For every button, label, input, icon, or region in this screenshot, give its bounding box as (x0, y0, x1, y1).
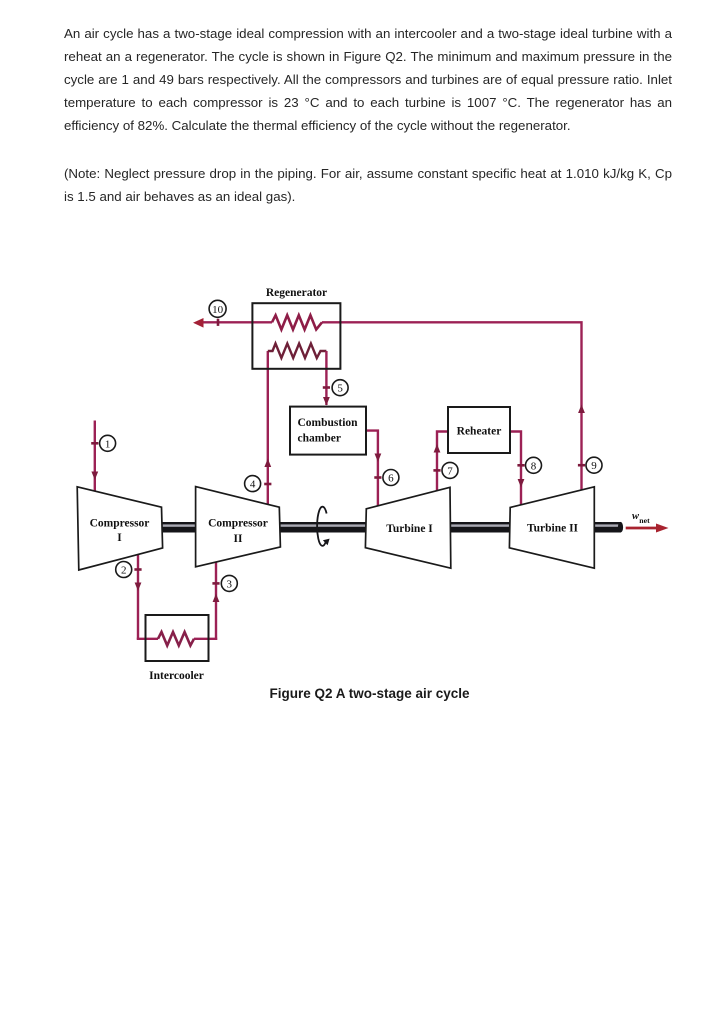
pipe 5 : regenerator to combustion chamber (325, 351, 327, 405)
svg-text:7: 7 (447, 465, 453, 477)
pipe 6 : combustion chamber to turbine I (366, 431, 378, 506)
node 1 (100, 435, 116, 451)
tick node 10 (217, 319, 220, 326)
arrow on pipe 1 (91, 472, 98, 481)
pipe 3 : intercooler to compressor II (215, 562, 217, 640)
arrow on pipe 7 (434, 444, 441, 453)
svg-text:10: 10 (212, 304, 224, 316)
problem statement paragraph (64, 22, 672, 137)
turbine II body (509, 487, 594, 568)
svg-text:3: 3 (227, 578, 233, 590)
reheater box (448, 407, 510, 453)
svg-text:Combustion: Combustion (298, 417, 359, 429)
arrow on pipe 3 (213, 594, 220, 603)
svg-text:1: 1 (105, 438, 111, 450)
arrow on pipe 8 (518, 479, 525, 488)
node 10 (209, 300, 226, 317)
exit pipe 10 (201, 321, 272, 323)
svg-text:Intercooler: Intercooler (149, 670, 204, 682)
regenerator box (252, 303, 340, 369)
node 8 (526, 457, 542, 473)
node 5 (332, 380, 348, 396)
node 6 (383, 470, 399, 486)
arrow on pipe 6 (375, 454, 382, 463)
intercooler box (146, 615, 209, 661)
svg-text:Compressor: Compressor (90, 518, 150, 530)
figure caption (270, 686, 470, 701)
svg-text:Regenerator: Regenerator (266, 287, 327, 299)
node 7 (442, 462, 458, 478)
compressor I body (77, 487, 162, 570)
arrow on pipe 4 (264, 459, 271, 468)
pipe 7 : turbine I to reheater (437, 432, 449, 491)
tick node 6 (374, 476, 381, 479)
tick node 1 (91, 442, 98, 445)
pipe 8 : reheater to turbine II (510, 432, 522, 505)
svg-text:5: 5 (337, 383, 343, 395)
svg-text:II: II (234, 533, 243, 545)
pipe 4 : compressor II up to regenerator cold side (267, 351, 269, 504)
pipe 9 : turbine II exhaust up to top line (580, 324, 582, 490)
compressor II body (196, 487, 281, 567)
tick node 7 (433, 469, 440, 472)
tick node 5 (323, 386, 330, 389)
svg-text:I: I (117, 532, 122, 544)
node 3 (221, 575, 237, 591)
tick node 4 (264, 483, 271, 486)
svg-text:Turbine II: Turbine II (527, 523, 579, 535)
top pipe : regenerator hot side line to exit 10 (322, 321, 583, 323)
svg-text:4: 4 (250, 479, 256, 491)
svg-text:net: net (639, 516, 650, 525)
turbine I body (365, 487, 450, 568)
arrow head exit 10 (193, 318, 204, 328)
tick node 9 (578, 464, 585, 467)
tick node 2 (134, 568, 141, 571)
svg-text:chamber: chamber (298, 432, 341, 444)
shaft (160, 522, 623, 533)
svg-text:Turbine I: Turbine I (386, 523, 433, 535)
node 9 (586, 457, 602, 473)
regenerator cold-side zigzag (268, 344, 327, 359)
intercooler inlet run (137, 638, 158, 640)
node 4 (245, 476, 261, 492)
arrow on pipe 2 (135, 583, 142, 592)
combustion chamber box (290, 407, 366, 455)
arrow on pipe 5 (323, 397, 330, 406)
tick node 3 (212, 582, 219, 585)
svg-text:2: 2 (121, 565, 127, 577)
svg-text:Compressor: Compressor (208, 518, 268, 530)
tick node 8 (517, 464, 524, 467)
intercooler zigzag (158, 632, 194, 646)
note paragraph (64, 162, 672, 208)
pipe 2 : compressor I to intercooler (137, 555, 139, 640)
node 2 (116, 562, 132, 578)
svg-text:8: 8 (531, 460, 537, 472)
shaft rotation symbol (317, 507, 326, 546)
svg-text:9: 9 (591, 460, 597, 472)
svg-text:Reheater: Reheater (457, 426, 502, 438)
intercooler outlet run (194, 638, 217, 640)
svg-text:6: 6 (388, 473, 394, 485)
pipe 1 : inlet to compressor I (94, 421, 96, 492)
w_net output arrow (626, 527, 658, 530)
regenerator hot-side zigzag (272, 315, 322, 329)
arrow on pipe 9 (578, 405, 585, 414)
